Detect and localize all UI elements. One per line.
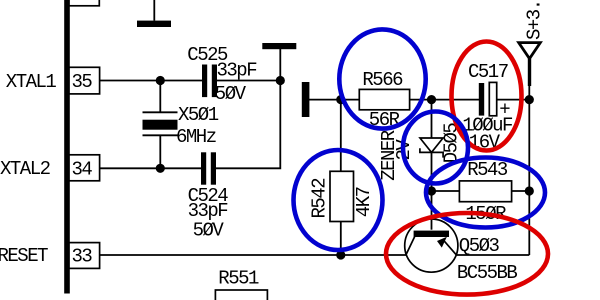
wire RESET line bbox=[100, 254, 406, 256]
crystal X501 bbox=[143, 81, 178, 169]
svg-text:Q5Ø3: Q5Ø3 bbox=[459, 235, 500, 257]
label R542 (rotated) bbox=[309, 178, 331, 219]
svg-text:33: 33 bbox=[72, 245, 93, 267]
svg-text:35: 35 bbox=[72, 71, 93, 93]
wire R543 to supply riser bbox=[512, 190, 530, 192]
node zener-R543 junction bbox=[427, 186, 436, 195]
ground symbol (top left) bbox=[137, 0, 171, 27]
svg-text:R551: R551 bbox=[218, 268, 259, 290]
node R543-supply junction bbox=[525, 186, 534, 195]
transistor Q503 bbox=[405, 191, 458, 272]
svg-text:BC55BB: BC55BB bbox=[457, 262, 518, 284]
svg-text:33pF: 33pF bbox=[217, 60, 258, 82]
svg-text:34: 34 bbox=[72, 158, 93, 180]
capacitor C525 bbox=[202, 65, 217, 98]
svg-text:XTAL2: XTAL2 bbox=[0, 158, 51, 180]
label ZENER (rotated) bbox=[378, 130, 400, 181]
pin box 35 bbox=[69, 67, 100, 94]
value 2V (rotated) bbox=[393, 139, 415, 161]
annotation blue ellipse around D505 bbox=[403, 112, 468, 184]
wire emitter to riser bbox=[457, 254, 530, 256]
annotation blue ellipse around R542 bbox=[294, 150, 383, 250]
annotation blue ellipse around R543 bbox=[426, 158, 545, 228]
wire R542 to RESET line bbox=[340, 222, 342, 256]
annotation red ellipse around Q503 bbox=[386, 213, 548, 295]
capacitor C517 (electrolytic) bbox=[479, 82, 497, 115]
svg-text:R566: R566 bbox=[362, 69, 403, 91]
wire R542 branch vertical bbox=[340, 100, 342, 172]
supply flag S+3.3 bbox=[519, 43, 541, 100]
zener diode D505 bbox=[420, 100, 443, 191]
node R542-RESET junction bbox=[336, 250, 345, 259]
annotation red ellipse around C517 bbox=[452, 42, 522, 151]
pin box 34 bbox=[69, 155, 100, 181]
value 4K7 (rotated) bbox=[353, 187, 375, 217]
node XTAL2 junction bbox=[156, 164, 165, 173]
node R542 branch junction bbox=[336, 95, 345, 104]
wire junction to R543 bbox=[432, 190, 460, 192]
wire XTAL1 pin35 to C525 bbox=[100, 80, 202, 82]
ground symbol (caps) bbox=[262, 43, 296, 81]
svg-text:RESET: RESET bbox=[0, 245, 48, 267]
wire rail to R566 bbox=[309, 99, 359, 101]
IC edge bus bar bbox=[64, 0, 70, 294]
svg-text:S+3.: S+3. bbox=[524, 0, 546, 40]
node XTAL1 junction bbox=[156, 76, 165, 85]
svg-text:X5Ø1: X5Ø1 bbox=[178, 104, 219, 126]
resistor R542 bbox=[330, 171, 354, 221]
wire C524 to ground riser bbox=[216, 81, 280, 169]
svg-text:5ØV: 5ØV bbox=[215, 83, 247, 105]
svg-text:4K7: 4K7 bbox=[353, 187, 375, 217]
wire supply riser down to emitter line bbox=[528, 100, 530, 255]
pin box 36 (partial, top edge cut) bbox=[69, 0, 100, 6]
svg-text:C517: C517 bbox=[468, 61, 508, 83]
svg-text:5ØV: 5ØV bbox=[193, 219, 225, 241]
wire XTAL2 pin34 to C524 bbox=[100, 167, 201, 169]
wire R566 to C517 bbox=[410, 99, 479, 101]
svg-text:R542: R542 bbox=[309, 178, 331, 219]
svg-text:R543: R543 bbox=[467, 159, 508, 181]
svg-text:XTAL1: XTAL1 bbox=[6, 71, 57, 93]
node cap-ground junction bbox=[276, 76, 285, 85]
resistor R566 bbox=[359, 89, 409, 109]
resistor R543 bbox=[459, 181, 511, 202]
node zener branch junction bbox=[427, 95, 436, 104]
annotation blue ellipse around R566 bbox=[339, 29, 425, 128]
label D505 (rotated) bbox=[441, 123, 463, 164]
node supply junction bbox=[525, 95, 534, 104]
net label S+3. (rotated) bbox=[524, 0, 546, 40]
resistor R551 (partial, bottom cut) bbox=[215, 290, 267, 300]
wire C517 to supply node bbox=[497, 99, 530, 101]
pin box 33 bbox=[69, 243, 100, 269]
rail bar (left terminal of supply net) bbox=[302, 82, 310, 117]
capacitor C524 bbox=[201, 152, 216, 184]
wire C525 to ground node bbox=[217, 80, 280, 82]
svg-text:6MHz: 6MHz bbox=[176, 126, 216, 148]
